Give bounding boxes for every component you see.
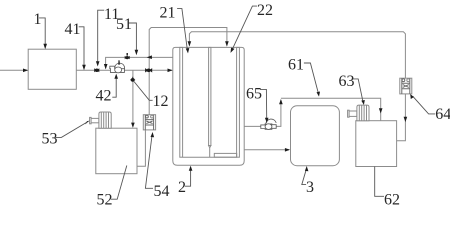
valve upper stem: [127, 53, 128, 56]
arrow label 61 tip: [317, 92, 321, 97]
leader label 63: [352, 79, 363, 101]
svg-text:3: 3: [306, 179, 314, 196]
arrow label 54 tip up: [151, 132, 155, 137]
arrow label 2 tip up: [189, 166, 193, 171]
svg-text:41: 41: [65, 21, 81, 38]
svg-text:54: 54: [154, 183, 170, 200]
svg-text:61: 61: [288, 56, 304, 73]
leader label 11: [98, 10, 105, 62]
arrow label 11 onto valve: [96, 61, 100, 66]
valve 11: [94, 68, 99, 72]
svg-text:2: 2: [178, 179, 186, 196]
arrow tee into box 52: [131, 123, 135, 128]
arrow into box 3 left: [285, 148, 290, 152]
arrow label 41 onto main line: [82, 65, 86, 70]
leader label 3: [302, 170, 306, 185]
wire: line A riser from component 54 up and into tank top: [149, 28, 227, 115]
arrow label 51 onto upper line: [135, 50, 139, 55]
leader label 21: [177, 9, 187, 50]
leader label 12: [134, 82, 153, 101]
box 62: [356, 121, 397, 167]
arrow label 63 tip: [361, 100, 365, 105]
component 54 side plates: [145, 115, 153, 130]
svg-text:63: 63: [339, 73, 355, 90]
arrow line A into tank top: [225, 41, 229, 46]
component 64 body: [400, 78, 412, 94]
arrow on upper line pointing left: [147, 55, 152, 59]
valve on main line at junction: [145, 68, 152, 72]
component 54 top bolts: [146, 115, 149, 118]
pump 42 body: [110, 66, 125, 72]
leader label 41: [79, 27, 84, 66]
component 64 side plates: [402, 78, 410, 94]
svg-text:62: 62: [384, 192, 400, 207]
valve on upper line: [125, 56, 130, 59]
pump 42 top pin: [118, 60, 120, 64]
box 3: [291, 106, 340, 166]
arrow line B into tank top: [188, 41, 192, 46]
leader label 53: [55, 123, 86, 138]
valve 65 bulge: [265, 124, 272, 130]
component 54 inner bars: [145, 120, 153, 125]
wire: tank outlet to valve 65 and riser: [244, 100, 281, 126]
leader label 22: [232, 6, 257, 49]
wire: upper recirculation line to tank: [106, 57, 173, 68]
arrow line B below 64: [404, 117, 408, 122]
motor 53 stripes: [101, 112, 108, 128]
arrow label 65 tip: [265, 118, 269, 123]
pump 42 bulge: [115, 67, 122, 73]
arrow label 64 tip: [410, 94, 414, 99]
leader label 42: [112, 78, 116, 98]
svg-text:12: 12: [153, 93, 169, 110]
motor 63 body: [357, 105, 369, 121]
arrow line C into box 62: [379, 108, 383, 113]
wire: line C from riser over box 3 down into box 62: [281, 98, 381, 120]
arrow label 22 tip: [231, 48, 235, 53]
motor 53 shaft: [91, 118, 99, 122]
svg-text:65: 65: [246, 85, 262, 102]
wire: tee from main line down into box 52: [132, 70, 134, 126]
svg-text:64: 64: [435, 106, 450, 123]
arrow riser up into line C: [279, 99, 283, 104]
arrow label 1 into box 1 top: [43, 44, 47, 49]
box 52: [96, 128, 137, 174]
wire: feed line into box 1: [0, 69, 28, 71]
motor 63 stripes: [359, 105, 366, 121]
svg-text:53: 53: [42, 130, 58, 147]
svg-text:1: 1: [34, 11, 42, 28]
leader label 61: [304, 63, 318, 93]
tank 2 inner right wall: [237, 47, 240, 157]
motor 63 shaft end bar: [348, 110, 350, 117]
wire: line B below component 64 down to box 62: [397, 94, 406, 141]
valve 65 body: [261, 124, 276, 129]
tank 2 heater bar: [214, 153, 236, 157]
pump 42 dome: [115, 63, 125, 69]
wire: pipe from component 54 down into box 52: [137, 130, 145, 166]
arrow into box 1: [23, 69, 28, 73]
leader label 65: [260, 89, 267, 118]
arrow label 42 tip up: [114, 74, 118, 79]
component 54 body: [143, 115, 155, 130]
motor 63 shaft: [348, 111, 357, 116]
leader label 52: [111, 166, 127, 200]
leader label 54: [145, 136, 153, 189]
leader label 51: [129, 23, 137, 51]
tank 2 inner bottom: [183, 156, 237, 158]
svg-text:21: 21: [160, 4, 176, 21]
leader label 2: [185, 170, 191, 187]
arrow label 3 tip up: [305, 166, 309, 171]
wire: line B from tank top nozzle to component 64 and box 62: [189, 32, 405, 78]
box 1: [28, 49, 76, 89]
tank 2 inner left wall: [180, 47, 183, 157]
leader label 64: [413, 96, 435, 114]
arrow label 53 tip: [85, 121, 90, 125]
tank 2 stirrer shaft: [209, 47, 211, 145]
svg-text:52: 52: [97, 192, 113, 207]
component 64 inner bars: [402, 83, 410, 89]
wire: tank lower outlet into box 3: [244, 149, 289, 151]
motor 53 body: [99, 112, 111, 128]
svg-text:22: 22: [257, 2, 273, 19]
valve 65 dome: [266, 119, 276, 124]
arrow main line into tank: [168, 69, 173, 73]
component 64 top bolts: [402, 79, 405, 82]
arrow label 21 tip: [186, 48, 190, 53]
tank 2 outer shell: [173, 47, 244, 165]
leader label 62: [375, 167, 384, 197]
tank 2 stirrer tip: [209, 146, 211, 158]
svg-text:51: 51: [116, 16, 132, 33]
motor 53 shaft end bar: [90, 117, 92, 123]
arrow upper line corner down: [104, 64, 108, 69]
wire: main line box1 to tank: [76, 69, 172, 71]
sensor 12 dot: [131, 78, 135, 82]
svg-text:42: 42: [96, 88, 112, 105]
leader label 1: [39, 18, 45, 45]
